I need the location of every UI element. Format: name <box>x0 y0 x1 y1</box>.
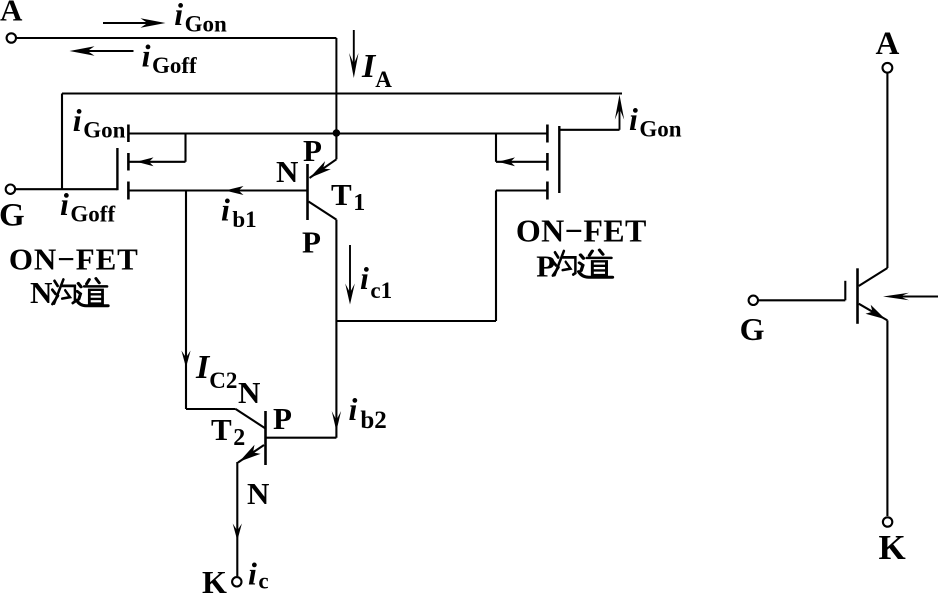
svg-text:T2: T2 <box>211 412 245 451</box>
svg-text:ib2: ib2 <box>349 391 387 434</box>
svg-text:K: K <box>879 528 906 567</box>
svg-text:iGoff: iGoff <box>60 186 115 227</box>
svg-text:ic1: ic1 <box>360 260 392 303</box>
svg-text:G: G <box>740 311 765 347</box>
svg-text:T1: T1 <box>331 177 365 216</box>
svg-text:N: N <box>247 476 269 511</box>
svg-text:P: P <box>302 225 321 260</box>
svg-text:ON−FET: ON−FET <box>516 213 647 249</box>
svg-text:ib1: ib1 <box>221 192 257 233</box>
svg-text:P: P <box>536 249 555 284</box>
svg-text:IA: IA <box>361 48 392 92</box>
svg-text:N: N <box>238 375 260 410</box>
svg-text:iGoff: iGoff <box>142 38 197 79</box>
svg-text:ic: ic <box>248 556 269 594</box>
svg-text:iGon: iGon <box>174 0 227 37</box>
svg-text:A: A <box>0 0 23 28</box>
svg-text:N: N <box>30 275 52 310</box>
svg-text:G: G <box>0 198 25 234</box>
svg-text:K: K <box>202 564 227 593</box>
svg-text:P: P <box>303 133 322 168</box>
svg-text:P: P <box>273 401 292 436</box>
svg-text:iGon: iGon <box>629 101 682 142</box>
svg-text:A: A <box>876 26 900 62</box>
svg-text:iGon: iGon <box>73 102 126 143</box>
svg-text:IC2: IC2 <box>195 349 237 393</box>
svg-text:ON−FET: ON−FET <box>9 241 139 276</box>
svg-text:N: N <box>276 154 298 189</box>
